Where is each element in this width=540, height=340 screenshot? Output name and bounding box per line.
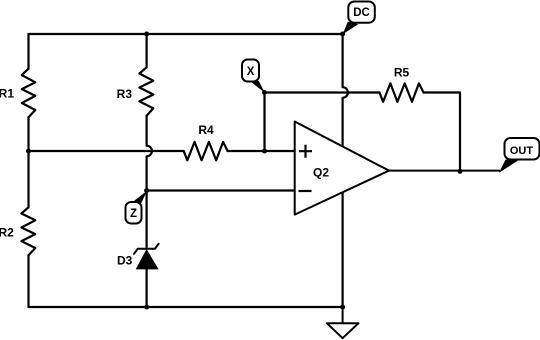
- wire R4 to op-amp plus input: [228, 150, 295, 152]
- op-amp Q2: [295, 122, 389, 215]
- wire bottom rail: [29, 306, 343, 308]
- wire top rail: [29, 33, 343, 35]
- svg-text:X: X: [247, 66, 255, 78]
- wire output: [389, 170, 500, 172]
- junction node bottom rail at ground: [340, 305, 345, 310]
- wire R3 to node Z with hop over middle wire: [147, 116, 152, 191]
- svg-text:DC: DC: [353, 7, 370, 19]
- ground: [327, 307, 359, 338]
- flag Z: [126, 191, 148, 224]
- svg-text:R4: R4: [198, 123, 214, 137]
- junction node Z: [144, 188, 149, 193]
- flag X: [242, 60, 265, 93]
- wire left rail middle: [27, 117, 29, 207]
- flag OUT: [499, 138, 540, 173]
- resistor R3: [139, 67, 153, 116]
- svg-text:R2: R2: [0, 226, 14, 240]
- junction node DC: [340, 32, 345, 37]
- wire node X vertical: [263, 93, 265, 152]
- svg-text:D3: D3: [117, 254, 133, 268]
- junction node on top rail at R3: [144, 32, 149, 37]
- junction node left rail middle: [26, 149, 31, 154]
- resistor R4: [184, 142, 228, 160]
- svg-text:OUT: OUT: [510, 145, 534, 157]
- diode D3 zener: [134, 244, 159, 269]
- svg-text:R1: R1: [0, 87, 14, 101]
- wire R5 to output node: [424, 93, 460, 172]
- junction node X vertical to middle wire: [262, 149, 267, 154]
- wire node Z to D3: [146, 191, 148, 248]
- junction node X: [262, 90, 267, 95]
- wire minus input from node Z: [147, 189, 295, 191]
- wire middle (node to R4): [29, 150, 184, 152]
- svg-text:Q2: Q2: [313, 166, 329, 180]
- resistor R5: [380, 83, 424, 101]
- resistor R1: [22, 69, 36, 118]
- wire R3 top stub: [146, 34, 148, 67]
- junction node bottom rail at D3: [144, 305, 149, 310]
- wire DC rail vertical with hop over R5 wire: [343, 34, 348, 307]
- wire D3 to bottom rail: [146, 269, 148, 307]
- wire node X to R5: [265, 91, 380, 93]
- junction node output: [458, 169, 463, 174]
- flag DC: [343, 2, 375, 35]
- svg-text:R3: R3: [117, 87, 133, 101]
- svg-text:R5: R5: [394, 66, 410, 80]
- svg-text:Z: Z: [130, 208, 137, 220]
- resistor R2: [21, 207, 35, 255]
- wire left rail upper: [27, 34, 29, 69]
- wire left rail lower: [27, 255, 29, 307]
